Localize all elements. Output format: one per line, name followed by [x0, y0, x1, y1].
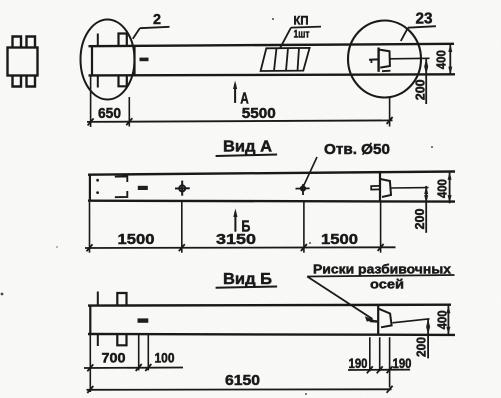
embedded plate mark [140, 58, 149, 62]
ext lines A dims [89, 202, 91, 253]
beam B left end [89, 306, 91, 334]
beam bottom line [89, 74, 456, 75]
ext line 650 right [128, 97, 130, 127]
tongue B [379, 309, 392, 328]
200 dim (main) [425, 58, 427, 104]
section symbol top-left tab [13, 37, 22, 48]
ext lines B bottom right [369, 337, 371, 371]
beam A top line [88, 172, 455, 175]
ticks B right [367, 366, 373, 373]
riska level ext line B [393, 319, 430, 323]
bottom anchor tab B [117, 334, 126, 345]
ticks B left [87, 364, 93, 371]
leader riski [307, 277, 372, 320]
400 dim (B) [447, 305, 449, 335]
dim line B right [348, 369, 410, 371]
top anchor tab B [117, 293, 126, 306]
KP hatched plate [261, 48, 310, 71]
dim line A [85, 246, 396, 249]
leader to 200 dim A [392, 187, 429, 189]
beam B right end [377, 305, 379, 335]
beam top line [89, 44, 455, 46]
leader of 23 [401, 28, 408, 41]
KP leader [280, 28, 291, 49]
hole cross [301, 186, 305, 190]
main dim line [87, 120, 393, 122]
top anchor tab [119, 34, 127, 47]
B view arrow [234, 212, 236, 232]
hidden corner mark bottom [115, 191, 128, 197]
200 dim (B) [427, 319, 429, 359]
lifting loop cross [179, 185, 185, 191]
dim line B left [84, 367, 183, 370]
200 dim (A) [425, 186, 427, 233]
left oval callout [81, 20, 135, 100]
riska mark main [369, 58, 378, 60]
right oval callout [348, 21, 421, 98]
bottom thin anchor line [97, 75, 99, 87]
section symbol bottom-right tab [27, 76, 36, 87]
A view arrow [234, 84, 236, 103]
6150 dim line [87, 388, 392, 391]
ticks A [87, 244, 93, 251]
ext lines B bottom left [89, 335, 91, 392]
beam right end [377, 48, 379, 72]
section symbol square [8, 48, 38, 76]
top thin anchor line B [97, 292, 99, 306]
beam A right end [379, 172, 381, 201]
embedded plate mark A [138, 186, 148, 190]
beam left end [91, 46, 93, 75]
tongue A [380, 179, 391, 197]
specks [272, 18, 274, 20]
scan noise overlay [0, 0, 1, 1]
400 dim (main) [449, 44, 451, 75]
KP plate dividers [274, 48, 277, 71]
bottom thin anchor line B [97, 334, 99, 346]
beam A left end [89, 175, 91, 201]
end tongue detail [379, 50, 390, 68]
beam B top line [88, 304, 451, 307]
beam B bottom line [88, 333, 455, 336]
ext line left (650) [90, 77, 92, 128]
dots [96, 179, 99, 182]
section symbol top-right tab [27, 37, 36, 48]
top thin anchor line [97, 34, 99, 47]
hidden corner mark top [115, 176, 128, 182]
riska bracket A [371, 186, 379, 190]
bottom anchor tab [119, 75, 127, 86]
embedded plate mark B [138, 318, 149, 322]
leader to 200 dim [390, 57, 430, 60]
400 dim (A) [449, 172, 451, 204]
section symbol bottom-left tab [13, 76, 22, 87]
beam A bottom line [88, 199, 455, 202]
leader otv [303, 157, 317, 187]
ticks [88, 118, 94, 125]
ticks 6150 [87, 386, 93, 393]
corbel right edge [133, 46, 135, 75]
leader of 2 [133, 28, 140, 39]
riska mark B [370, 320, 378, 323]
small dash under tongue [382, 70, 391, 73]
ext line 5500 right [389, 98, 391, 127]
